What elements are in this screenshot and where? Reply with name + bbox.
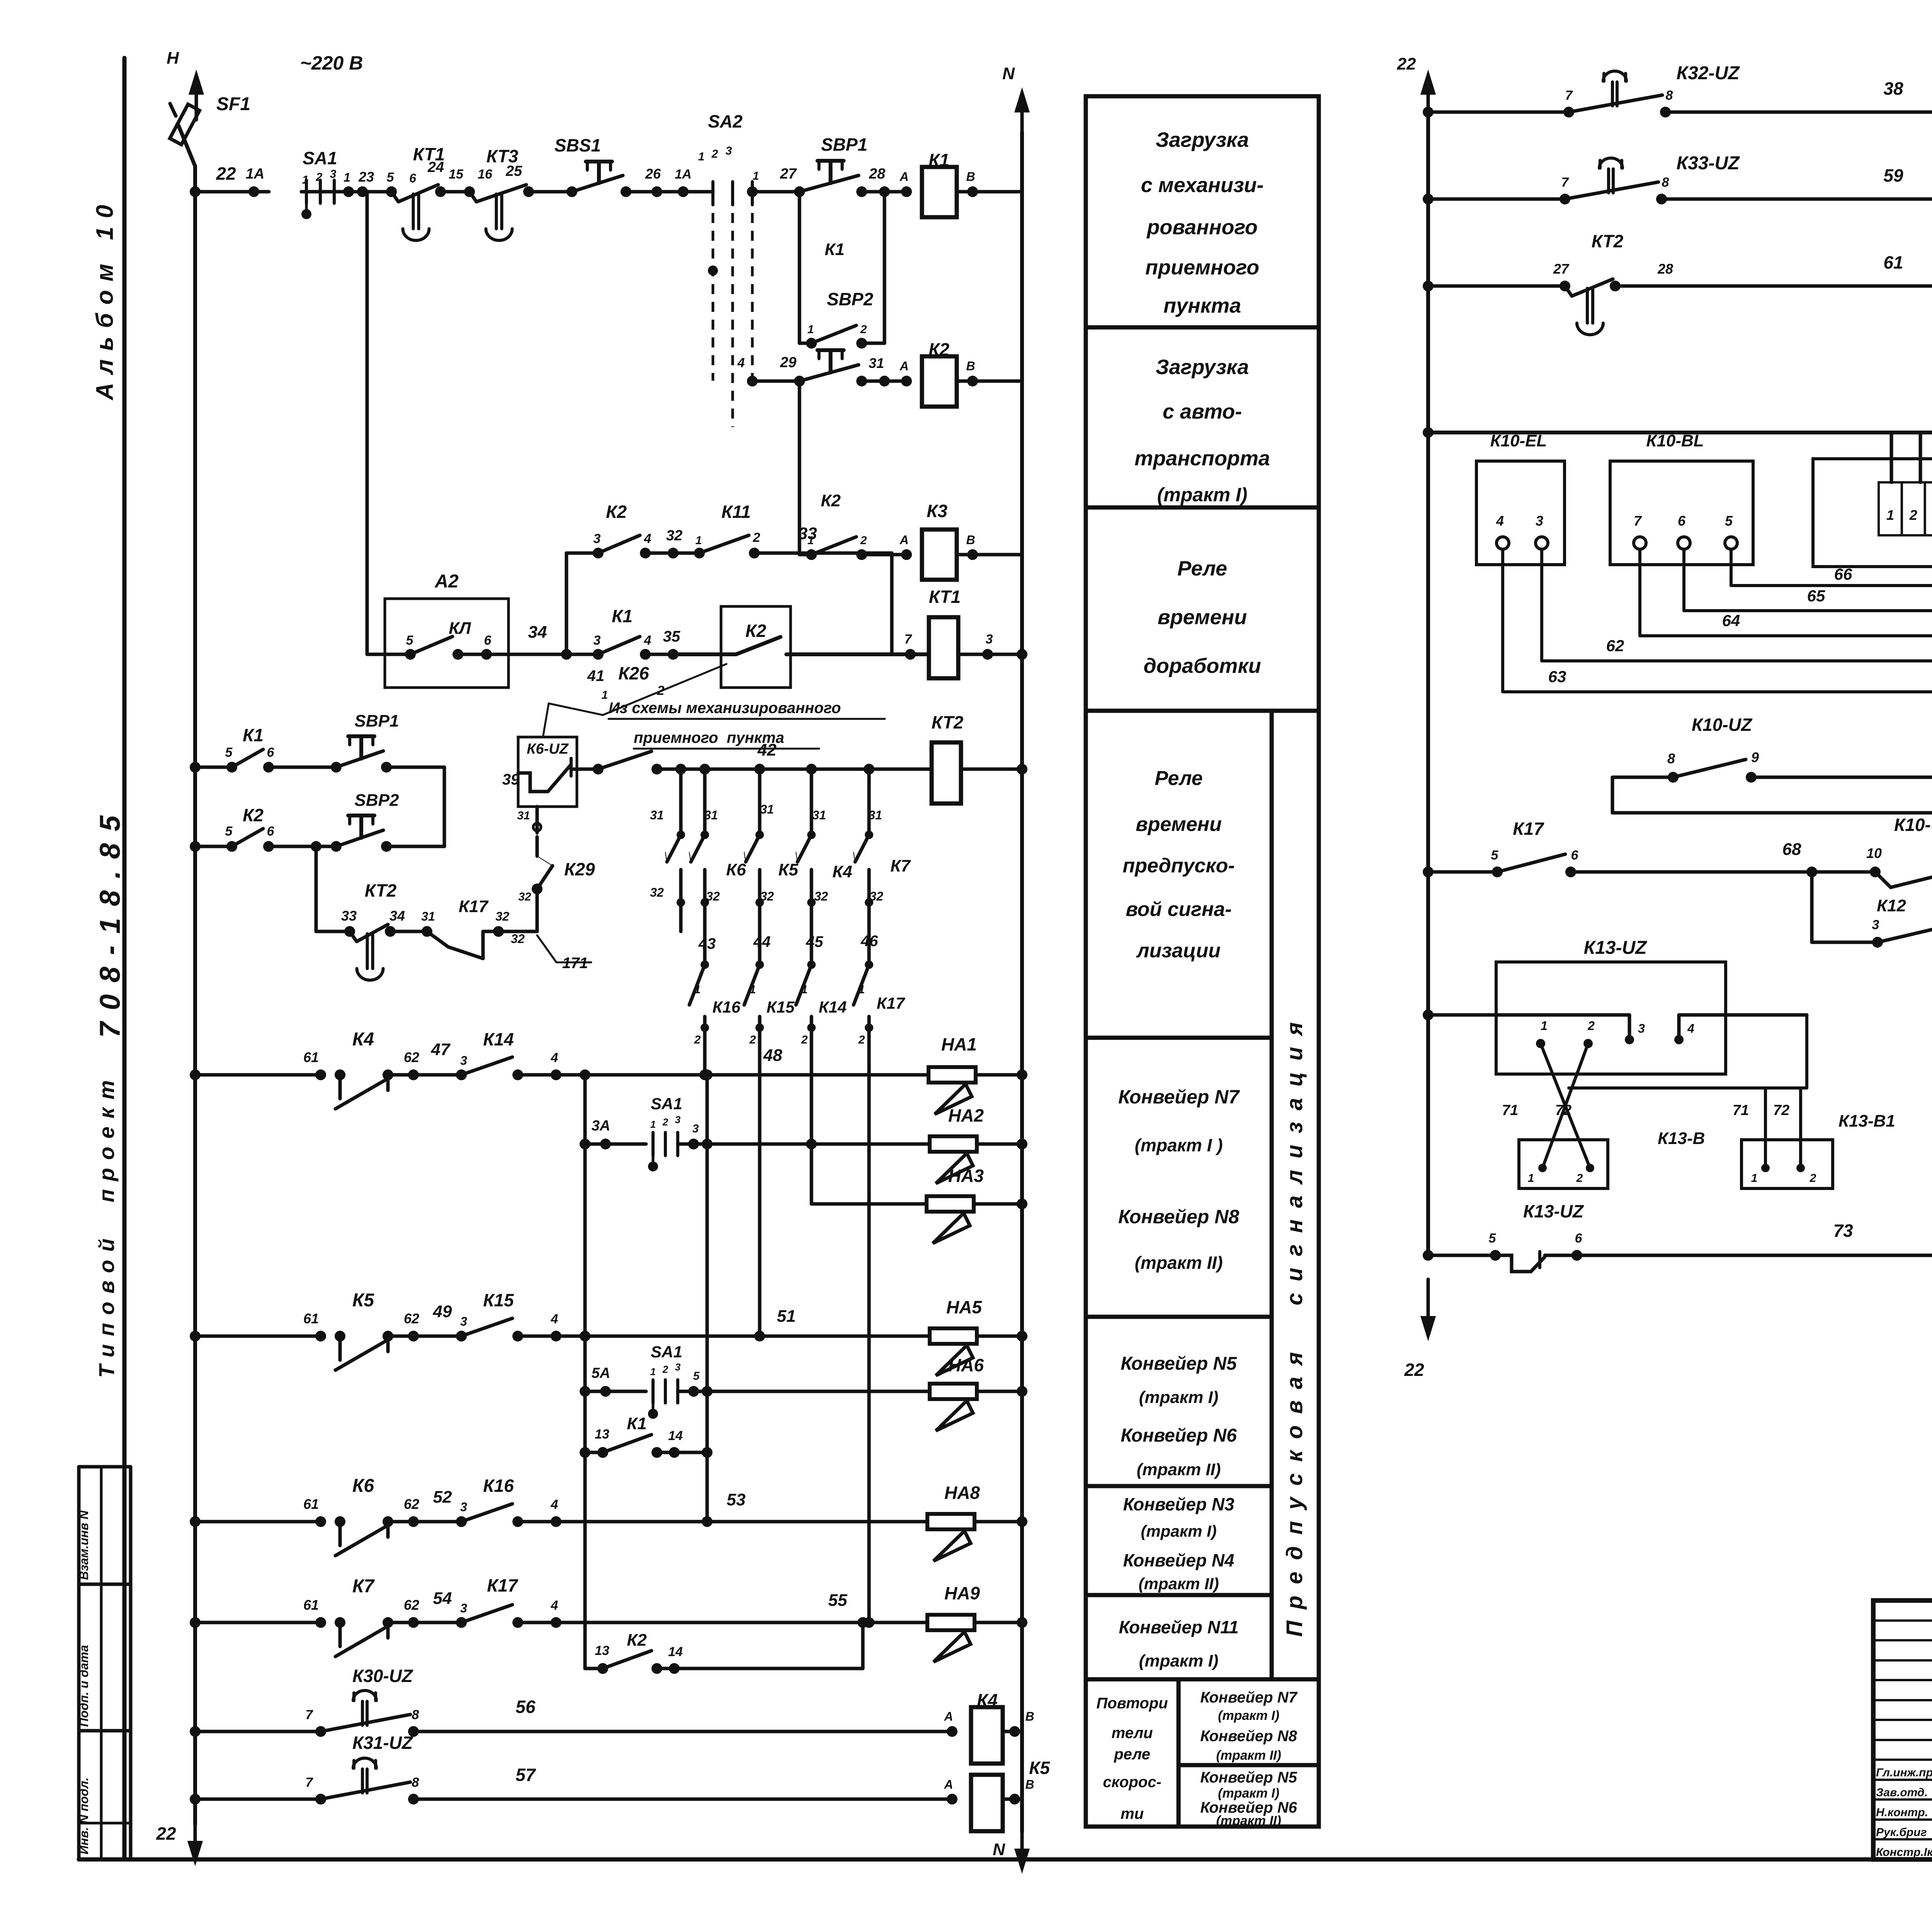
right area left rail bottom arrow — [1427, 1279, 1430, 1330]
svg-text:3: 3 — [460, 1500, 467, 1514]
svg-text:3: 3 — [460, 1054, 467, 1067]
rung 54 K7 K17 55 HA9 — [190, 1617, 201, 1628]
middle column box konveyer5-6 — [1086, 1317, 1272, 1486]
K10 wiring 64 — [1638, 549, 1641, 636]
svg-text:SF1: SF1 — [216, 94, 250, 114]
svg-text:А: А — [899, 533, 908, 547]
box K13-B — [1519, 1140, 1608, 1188]
svg-text:К4: К4 — [352, 1029, 374, 1050]
svg-text:КТ2: КТ2 — [365, 880, 397, 901]
svg-text:63: 63 — [1548, 667, 1566, 686]
svg-text:SBP2: SBP2 — [827, 289, 874, 309]
svg-text:3: 3 — [726, 145, 732, 157]
svg-text:1: 1 — [1528, 1172, 1534, 1185]
svg-text:(тракт II): (тракт II) — [1135, 1253, 1223, 1273]
svg-text:Конвейер N7: Конвейер N7 — [1118, 1086, 1240, 1108]
svg-text:А2: А2 — [434, 571, 459, 592]
svg-text:Конвейер N3: Конвейер N3 — [1123, 1494, 1235, 1514]
svg-text:32: 32 — [511, 932, 525, 946]
svg-text:1: 1 — [753, 170, 759, 182]
svg-text:1: 1 — [1751, 1172, 1758, 1185]
svg-text:33: 33 — [341, 908, 357, 924]
svg-text:4: 4 — [551, 1598, 558, 1613]
svg-text:3: 3 — [330, 168, 337, 180]
svg-text:61: 61 — [303, 1597, 319, 1613]
wires from bus to terminals 1 2 — [1890, 432, 1893, 482]
svg-text:В: В — [1025, 1777, 1034, 1791]
svg-text:(тракт I ): (тракт I ) — [1135, 1135, 1223, 1155]
svg-text:5: 5 — [387, 170, 395, 185]
svg-text:4: 4 — [1687, 1021, 1694, 1035]
svg-text:Констр.Iкат: Констр.Iкат — [1876, 1846, 1932, 1859]
svg-text:К6-UZ: К6-UZ — [527, 741, 569, 757]
svg-text:41: 41 — [587, 667, 605, 684]
svg-text:57: 57 — [515, 1765, 536, 1785]
svg-text:предпуско-: предпуско- — [1122, 855, 1235, 877]
svg-text:К17: К17 — [877, 994, 905, 1012]
middle column box konveyer11 — [1086, 1595, 1272, 1679]
svg-text:К14: К14 — [819, 998, 847, 1016]
svg-text:9: 9 — [1751, 749, 1759, 765]
svg-text:1: 1 — [602, 689, 608, 701]
node 28 — [862, 190, 884, 194]
K10 wiring 62 — [1540, 549, 1543, 661]
svg-text:Подп. и дата: Подп. и дата — [77, 1645, 91, 1727]
svg-text:1: 1 — [808, 323, 814, 336]
svg-text:7: 7 — [1634, 513, 1642, 529]
svg-text:71: 71 — [1502, 1102, 1518, 1119]
svg-text:1А: 1А — [675, 167, 691, 182]
svg-text:31: 31 — [760, 802, 774, 816]
svg-text:К10-UZ: К10-UZ — [1894, 815, 1932, 835]
svg-text:2: 2 — [1909, 507, 1917, 523]
svg-text:НА3: НА3 — [948, 1166, 984, 1186]
rung SBP2 K2 coil — [752, 380, 799, 383]
rung KT2 61 coil K8 — [1423, 281, 1434, 291]
junction bus row K10 — [1423, 427, 1434, 438]
svg-text:1: 1 — [650, 1119, 656, 1130]
svg-text:6: 6 — [267, 745, 275, 760]
svg-text:8: 8 — [412, 1708, 419, 1722]
svg-text:31: 31 — [421, 909, 435, 923]
svg-text:28: 28 — [1657, 261, 1673, 277]
svg-text:47: 47 — [431, 1040, 451, 1059]
svg-text:(тракт II): (тракт II) — [1216, 1748, 1281, 1763]
svg-text:3: 3 — [986, 632, 993, 647]
svg-text:68: 68 — [1782, 840, 1801, 859]
svg-text:32: 32 — [518, 890, 531, 903]
svg-text:1: 1 — [1886, 507, 1894, 523]
middle column box konveyer7-8 — [1086, 1038, 1272, 1317]
svg-text:14: 14 — [668, 1428, 683, 1443]
drop wire 3 — [758, 769, 762, 835]
svg-text:1: 1 — [698, 150, 705, 163]
rung K33-UZ 59 coil K7 — [1423, 194, 1434, 204]
svg-text:К5: К5 — [778, 860, 798, 879]
svg-text:2: 2 — [694, 1033, 701, 1046]
rung K32-UZ 38 coil K6 — [1423, 107, 1434, 117]
svg-text:2: 2 — [753, 530, 760, 545]
svg-text:31: 31 — [650, 808, 664, 822]
svg-text:SA1: SA1 — [651, 1343, 682, 1361]
svg-text:с механизи-: с механизи- — [1141, 174, 1264, 197]
svg-text:61: 61 — [303, 1311, 319, 1326]
middle bottom box povtoriteli — [1086, 1679, 1179, 1827]
svg-text:НА9: НА9 — [944, 1583, 980, 1603]
svg-text:Н.контр.: Н.контр. — [1876, 1806, 1928, 1819]
box K6-UZ — [518, 737, 577, 807]
svg-text:32: 32 — [706, 889, 720, 903]
svg-text:К26: К26 — [618, 663, 649, 683]
rung 5A SA1 HA6 — [580, 1386, 590, 1397]
svg-text:Инв. N подл.: Инв. N подл. — [77, 1777, 91, 1854]
svg-text:5А: 5А — [592, 1365, 611, 1381]
svg-text:31: 31 — [812, 808, 826, 822]
svg-text:3: 3 — [692, 1122, 699, 1135]
middle column vertical cell predpuskovaya — [1272, 711, 1319, 1679]
svg-text:22: 22 — [1397, 54, 1416, 73]
svg-text:Рук.бриг: Рук.бриг — [1876, 1826, 1927, 1839]
svg-text:К31-UZ: К31-UZ — [352, 1733, 413, 1753]
svg-text:реле: реле — [1114, 1746, 1150, 1763]
wire 42 to coil KT2 — [657, 768, 932, 771]
svg-text:3: 3 — [594, 633, 601, 648]
svg-text:Конвейер N6: Конвейер N6 — [1121, 1425, 1237, 1446]
svg-text:К30-UZ: К30-UZ — [352, 1666, 413, 1686]
svg-text:4: 4 — [551, 1050, 558, 1065]
svg-text:49: 49 — [433, 1302, 452, 1321]
svg-text:2: 2 — [749, 1033, 756, 1046]
svg-text:Конвейер N8: Конвейер N8 — [1200, 1728, 1297, 1745]
svg-text:К13-UZ: К13-UZ — [1523, 1201, 1584, 1221]
svg-text:4: 4 — [551, 1312, 558, 1326]
svg-text:6: 6 — [1571, 848, 1579, 863]
svg-text:6: 6 — [409, 171, 416, 185]
svg-text:3: 3 — [594, 531, 601, 546]
page border left — [122, 58, 127, 1859]
middle column box zagruzka avto — [1086, 327, 1319, 507]
svg-text:6: 6 — [1575, 1231, 1583, 1246]
svg-text:5: 5 — [225, 745, 233, 760]
svg-text:2: 2 — [662, 1116, 668, 1128]
svg-text:32: 32 — [760, 889, 774, 903]
svg-text:22: 22 — [156, 1823, 176, 1844]
svg-text:62: 62 — [404, 1049, 419, 1065]
svg-text:2: 2 — [858, 1033, 865, 1046]
left rail H (phase) vertical — [193, 166, 197, 1824]
middle bottom boxes konveyer list — [1179, 1679, 1319, 1765]
box A2 with contact KL — [385, 599, 509, 688]
svg-text:4: 4 — [551, 1497, 558, 1512]
middle column box konveyer3-4 — [1086, 1486, 1272, 1595]
svg-text:3: 3 — [1638, 1021, 1645, 1035]
svg-text:53: 53 — [727, 1490, 746, 1509]
svg-text:К32-UZ: К32-UZ — [1677, 63, 1740, 83]
svg-text:3: 3 — [675, 1114, 681, 1125]
wire 23-5 — [362, 190, 391, 194]
svg-text:2: 2 — [860, 323, 867, 336]
svg-text:В: В — [1025, 1709, 1034, 1723]
svg-text:59: 59 — [1883, 165, 1903, 186]
svg-text:71: 71 — [1733, 1102, 1749, 1119]
K13-UZ terminals — [1536, 1039, 1545, 1048]
wire bus 1830 down — [706, 1075, 709, 1522]
svg-text:К16: К16 — [713, 998, 741, 1016]
svg-text:N: N — [993, 1840, 1005, 1859]
svg-text:29: 29 — [780, 354, 796, 371]
svg-text:32: 32 — [650, 885, 664, 899]
svg-text:Зав.отд.: Зав.отд. — [1876, 1786, 1928, 1799]
svg-text:62: 62 — [1606, 637, 1624, 655]
svg-text:рованного: рованного — [1146, 216, 1258, 239]
svg-text:4: 4 — [737, 356, 745, 370]
svg-text:SA2: SA2 — [708, 111, 743, 131]
svg-text:К2: К2 — [243, 805, 264, 825]
svg-text:К10-ВL: К10-ВL — [1646, 431, 1704, 450]
drops continue to lower contacts — [703, 902, 707, 965]
svg-text:2: 2 — [657, 683, 665, 698]
contact K1 5-6 row A — [190, 762, 201, 773]
contact K2 seal-in 1-2 — [798, 381, 801, 555]
left rail N (right) vertical — [1020, 132, 1024, 1832]
arrow H up — [195, 80, 198, 120]
svg-text:вой сигна-: вой сигна- — [1126, 898, 1231, 921]
svg-text:34: 34 — [528, 623, 547, 642]
bend wire from 8-9 to 69 node — [1611, 777, 1614, 813]
K10 wiring 65 — [1682, 549, 1685, 611]
svg-text:26: 26 — [645, 166, 661, 182]
svg-text:62: 62 — [404, 1496, 419, 1512]
breaker SF1 — [178, 124, 195, 166]
svg-text:8: 8 — [1667, 751, 1675, 766]
svg-text:Конвейер N5: Конвейер N5 — [1200, 1769, 1297, 1786]
svg-text:13: 13 — [595, 1427, 609, 1442]
svg-text:скорос-: скорос- — [1103, 1774, 1161, 1791]
page border bottom — [79, 1857, 1932, 1862]
svg-text:Конвейер N5: Конвейер N5 — [1121, 1353, 1237, 1374]
svg-text:SBР2: SBР2 — [355, 791, 399, 810]
middle column box rele vremeni predpusk — [1086, 711, 1272, 1038]
svg-text:К4: К4 — [832, 862, 852, 881]
svg-text:К33-UZ: К33-UZ — [1677, 153, 1740, 174]
svg-text:5: 5 — [225, 824, 233, 839]
svg-text:1: 1 — [1541, 1019, 1548, 1033]
svg-text:Конвейер N4: Конвейер N4 — [1123, 1550, 1235, 1570]
svg-text:SBР1: SBР1 — [355, 712, 399, 730]
svg-text:~220 В: ~220 В — [300, 52, 363, 74]
svg-text:3: 3 — [1536, 513, 1543, 529]
svg-text:6: 6 — [484, 633, 492, 648]
svg-text:56: 56 — [515, 1697, 536, 1717]
svg-text:48: 48 — [763, 1046, 782, 1065]
svg-text:К1: К1 — [825, 240, 845, 259]
svg-text:НА5: НА5 — [946, 1297, 982, 1317]
svg-text:5: 5 — [693, 1370, 700, 1382]
svg-text:66: 66 — [1834, 565, 1852, 583]
svg-text:лизации: лизации — [1136, 940, 1221, 962]
svg-text:33: 33 — [798, 524, 817, 543]
svg-text:К11: К11 — [721, 502, 751, 522]
wire 33 — [754, 552, 892, 555]
svg-text:51: 51 — [777, 1307, 796, 1326]
node 26 — [651, 186, 662, 197]
main title block frame — [1873, 1600, 1932, 1859]
drop wire 1 — [679, 769, 683, 835]
drop wire 4 — [810, 769, 813, 835]
svg-text:7: 7 — [905, 632, 913, 647]
svg-text:4: 4 — [644, 531, 651, 546]
rung HA3 — [810, 1144, 813, 1204]
bypass K12 3-4 — [1810, 872, 1814, 942]
svg-text:SA1: SA1 — [651, 1095, 682, 1113]
svg-text:7: 7 — [1561, 175, 1570, 190]
svg-text:2: 2 — [1810, 1172, 1816, 1185]
svg-text:42: 42 — [757, 741, 777, 759]
contact K1 seal-in 1-2 — [798, 192, 801, 343]
svg-text:3: 3 — [460, 1601, 467, 1615]
right rail bottom arrow N — [1020, 1831, 1024, 1863]
svg-text:К17: К17 — [1513, 819, 1544, 839]
svg-text:H: H — [167, 49, 179, 68]
svg-text:6: 6 — [1678, 513, 1686, 529]
svg-text:8: 8 — [412, 1775, 419, 1790]
svg-text:К1: К1 — [627, 1414, 647, 1433]
svg-text:К2: К2 — [606, 502, 627, 522]
drop wire 5 — [867, 769, 871, 835]
K10 wiring 63 — [1501, 549, 1504, 692]
svg-text:27: 27 — [1553, 261, 1570, 277]
svg-text:61: 61 — [303, 1049, 319, 1065]
svg-text:(тракт I): (тракт I) — [1141, 1522, 1216, 1540]
svg-text:38: 38 — [1883, 78, 1903, 99]
svg-text:61: 61 — [303, 1496, 319, 1512]
svg-text:К2: К2 — [821, 491, 841, 510]
box K13-B1 — [1742, 1140, 1833, 1188]
note leader lines — [549, 703, 603, 715]
svg-text:8: 8 — [1662, 175, 1669, 190]
svg-text:SA1: SA1 — [303, 148, 337, 168]
svg-text:10: 10 — [1866, 845, 1882, 861]
svg-text:2: 2 — [1587, 1019, 1595, 1033]
rung 13 K1 14 — [580, 1447, 590, 1458]
svg-text:Реле: Реле — [1155, 767, 1202, 790]
wire SA2 to 27 — [752, 190, 799, 194]
svg-text:К6: К6 — [726, 860, 746, 879]
svg-text:5: 5 — [1489, 1231, 1497, 1246]
rung 3A SA1 HA2 — [580, 1139, 590, 1149]
svg-text:3: 3 — [675, 1361, 681, 1373]
svg-text:27: 27 — [780, 166, 797, 182]
svg-text:НА1: НА1 — [941, 1034, 977, 1054]
margin stamp boxes bottom-left — [77, 1467, 81, 1859]
top rung wire 22-1A — [195, 190, 269, 194]
svg-text:А: А — [944, 1709, 953, 1723]
svg-text:Конвейер N7: Конвейер N7 — [1200, 1689, 1298, 1706]
svg-text:62: 62 — [404, 1311, 419, 1326]
svg-text:22: 22 — [1404, 1360, 1424, 1380]
svg-text:КТ2: КТ2 — [932, 712, 964, 732]
svg-text:708-18.85: 708-18.85 — [94, 815, 126, 1038]
svg-text:К10-ЕL: К10-ЕL — [1490, 431, 1547, 450]
svg-text:5: 5 — [1491, 848, 1499, 863]
svg-text:8: 8 — [1666, 88, 1673, 103]
svg-text:7: 7 — [306, 1708, 314, 1722]
K10 wiring 66 — [1730, 549, 1733, 586]
svg-text:А: А — [944, 1777, 953, 1791]
svg-text:КТ2: КТ2 — [1592, 231, 1624, 251]
svg-text:32: 32 — [869, 889, 883, 903]
svg-text:(тракт I): (тракт I) — [1157, 484, 1248, 506]
box K2 with contact — [721, 606, 791, 688]
svg-text:4: 4 — [1496, 513, 1504, 529]
svg-text:К13-В: К13-В — [1658, 1129, 1705, 1148]
wire bus to K13-B1 — [1569, 1086, 1807, 1090]
svg-text:7: 7 — [306, 1775, 314, 1790]
svg-text:Гл.инж.пр.: Гл.инж.пр. — [1876, 1766, 1932, 1779]
svg-text:В: В — [966, 359, 975, 373]
svg-text:К1: К1 — [612, 606, 633, 626]
node split to upper branch — [561, 649, 572, 660]
svg-text:К17: К17 — [459, 897, 489, 916]
rung 13 K2 14 — [585, 1667, 603, 1670]
svg-text:доработки: доработки — [1143, 654, 1261, 678]
svg-text:Взам.инв N: Взам.инв N — [77, 1510, 91, 1580]
svg-text:Повтори: Повтори — [1096, 1695, 1168, 1712]
svg-text:44: 44 — [753, 933, 771, 950]
svg-text:73: 73 — [1833, 1221, 1853, 1241]
svg-text:1: 1 — [344, 170, 350, 184]
svg-text:КТ1: КТ1 — [929, 587, 961, 607]
svg-text:(тракт I): (тракт I) — [1218, 1786, 1279, 1801]
svg-text:К5: К5 — [1029, 1758, 1050, 1778]
svg-text:Загрузка: Загрузка — [1156, 356, 1249, 379]
svg-text:(тракт II): (тракт II) — [1216, 1813, 1281, 1828]
svg-text:К15: К15 — [483, 1290, 514, 1310]
wire 34 — [486, 653, 566, 656]
svg-text:НА6: НА6 — [948, 1355, 984, 1375]
svg-text:55: 55 — [828, 1591, 847, 1610]
svg-text:1А: 1А — [246, 166, 265, 182]
svg-text:5: 5 — [406, 633, 414, 648]
middle column box rele vremeni dorabotki — [1086, 507, 1319, 711]
rung K30-UZ 56 coil K4 — [190, 1726, 201, 1737]
svg-text:Загрузка: Загрузка — [1156, 128, 1249, 152]
svg-text:К14: К14 — [483, 1029, 514, 1049]
svg-text:К7: К7 — [890, 856, 911, 875]
svg-text:16: 16 — [478, 167, 493, 182]
svg-text:N: N — [1002, 64, 1015, 83]
rung 52 K6 K16 53 HA8 — [190, 1516, 201, 1527]
svg-text:времени: времени — [1158, 606, 1247, 629]
svg-text:К6: К6 — [352, 1476, 374, 1496]
svg-text:приемного: приемного — [1145, 256, 1259, 279]
title name rows — [1873, 1759, 1932, 1761]
svg-text:К29: К29 — [564, 859, 595, 879]
svg-text:43: 43 — [698, 935, 716, 952]
svg-text:К2: К2 — [745, 621, 766, 641]
rung K17 68 K10-UZ 69 coil K12 — [1423, 867, 1434, 877]
svg-text:2: 2 — [1576, 1172, 1583, 1185]
svg-text:23: 23 — [358, 169, 374, 185]
svg-text:(тракт I): (тракт I) — [1139, 1388, 1219, 1407]
svg-text:1: 1 — [696, 534, 702, 547]
svg-text:3А: 3А — [592, 1118, 611, 1134]
svg-text:65: 65 — [1807, 587, 1825, 605]
svg-text:72: 72 — [1773, 1102, 1789, 1119]
rung K31-UZ 57 coil K5 — [190, 1794, 201, 1805]
svg-text:4: 4 — [644, 633, 651, 648]
svg-text:39: 39 — [502, 771, 520, 788]
